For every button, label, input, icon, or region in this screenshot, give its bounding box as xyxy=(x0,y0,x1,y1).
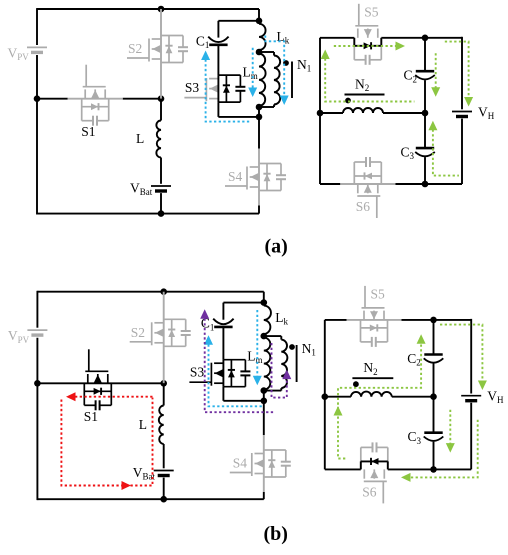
svg-text:C1: C1 xyxy=(196,34,210,51)
svg-text:S4: S4 xyxy=(233,456,248,471)
svg-text:S5: S5 xyxy=(364,4,379,19)
svg-text:N1: N1 xyxy=(297,57,311,74)
svg-text:C2: C2 xyxy=(403,68,417,85)
svg-text:N2: N2 xyxy=(363,360,377,377)
svg-text:C3: C3 xyxy=(407,429,421,446)
svg-text:Lm: Lm xyxy=(247,348,262,365)
svg-text:S2: S2 xyxy=(128,41,142,56)
svg-text:S6: S6 xyxy=(356,199,371,214)
svg-text:VH: VH xyxy=(487,389,504,406)
svg-text:S3: S3 xyxy=(185,80,200,95)
svg-text:S1: S1 xyxy=(81,124,95,139)
svg-text:VPV: VPV xyxy=(8,328,30,345)
svg-text:VBat: VBat xyxy=(130,180,153,197)
svg-text:(b): (b) xyxy=(264,523,288,545)
svg-text:N1: N1 xyxy=(302,341,316,358)
svg-text:VH: VH xyxy=(478,104,495,121)
svg-text:N2: N2 xyxy=(355,77,369,94)
svg-text:S1: S1 xyxy=(84,409,98,424)
svg-text:S2: S2 xyxy=(131,325,145,340)
svg-text:S4: S4 xyxy=(228,169,243,184)
svg-text:S6: S6 xyxy=(362,484,377,499)
svg-text:C3: C3 xyxy=(400,145,414,162)
svg-text:VPV: VPV xyxy=(8,46,30,63)
svg-text:Lm: Lm xyxy=(243,65,258,82)
svg-text:S5: S5 xyxy=(371,286,386,301)
svg-text:L: L xyxy=(136,131,144,146)
svg-text:L: L xyxy=(139,417,147,432)
svg-text:Lk: Lk xyxy=(277,29,290,46)
svg-text:S3: S3 xyxy=(190,365,205,380)
svg-text:C2: C2 xyxy=(407,351,421,368)
svg-text:Lk: Lk xyxy=(275,310,288,327)
svg-text:(a): (a) xyxy=(265,235,288,257)
